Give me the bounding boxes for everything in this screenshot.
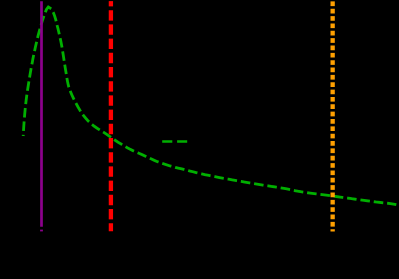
red dashed vertical line	[109, 1, 113, 231]
legend green dashed line sample	[162, 140, 187, 143]
purple vertical line (solid main segment)	[40, 1, 43, 227]
orange dotted vertical line	[330, 1, 334, 231]
purple vertical line (bottom dash)	[40, 230, 43, 232]
green dashed distribution curve	[23, 7, 396, 205]
